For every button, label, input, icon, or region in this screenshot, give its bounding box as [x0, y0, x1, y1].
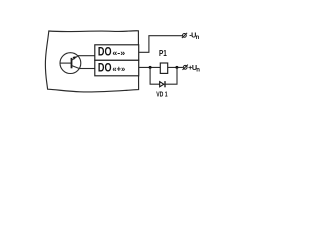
module frame (torn/wavy device outline): [45, 31, 138, 92]
svg-text:+Un: +Un: [188, 63, 200, 74]
svg-text:DO«-»: DO«-»: [98, 46, 126, 58]
DO«+» block: [95, 60, 139, 76]
diode VD1 branch wire: [150, 67, 160, 84]
base bar: [71, 58, 73, 68]
diode VD1 triangle and cathode bar: [160, 82, 164, 87]
wire: DO«-» to -Un terminal: [139, 36, 183, 53]
junction node left: [149, 66, 152, 69]
terminal -Un (circle with slash): [183, 34, 187, 38]
fuse P1 (white-filled body over wire): [160, 63, 167, 73]
svg-text:-Un: -Un: [189, 30, 199, 41]
wire: diode cathode up to +Un wire: [165, 67, 177, 84]
DO«-» block: [95, 45, 139, 61]
wire: transistor collector to DO«+» box: [79, 68, 95, 70]
transistor Q (open-collector output, in circle): [60, 53, 81, 74]
svg-text:P1: P1: [159, 48, 167, 58]
svg-text:VD 1: VD 1: [156, 90, 168, 99]
terminal +Un (circle with slash): [183, 65, 187, 69]
wire: transistor emitter to DO«-» box: [78, 55, 95, 57]
svg-text:DO«+»: DO«+»: [98, 63, 126, 75]
junction node right: [175, 66, 178, 69]
emitter arrowhead: [73, 56, 76, 59]
emitter lead: [72, 56, 78, 60]
wire: DO«+» to +Un terminal: [139, 66, 183, 68]
collector lead: [72, 66, 80, 69]
base lead: [60, 62, 71, 64]
